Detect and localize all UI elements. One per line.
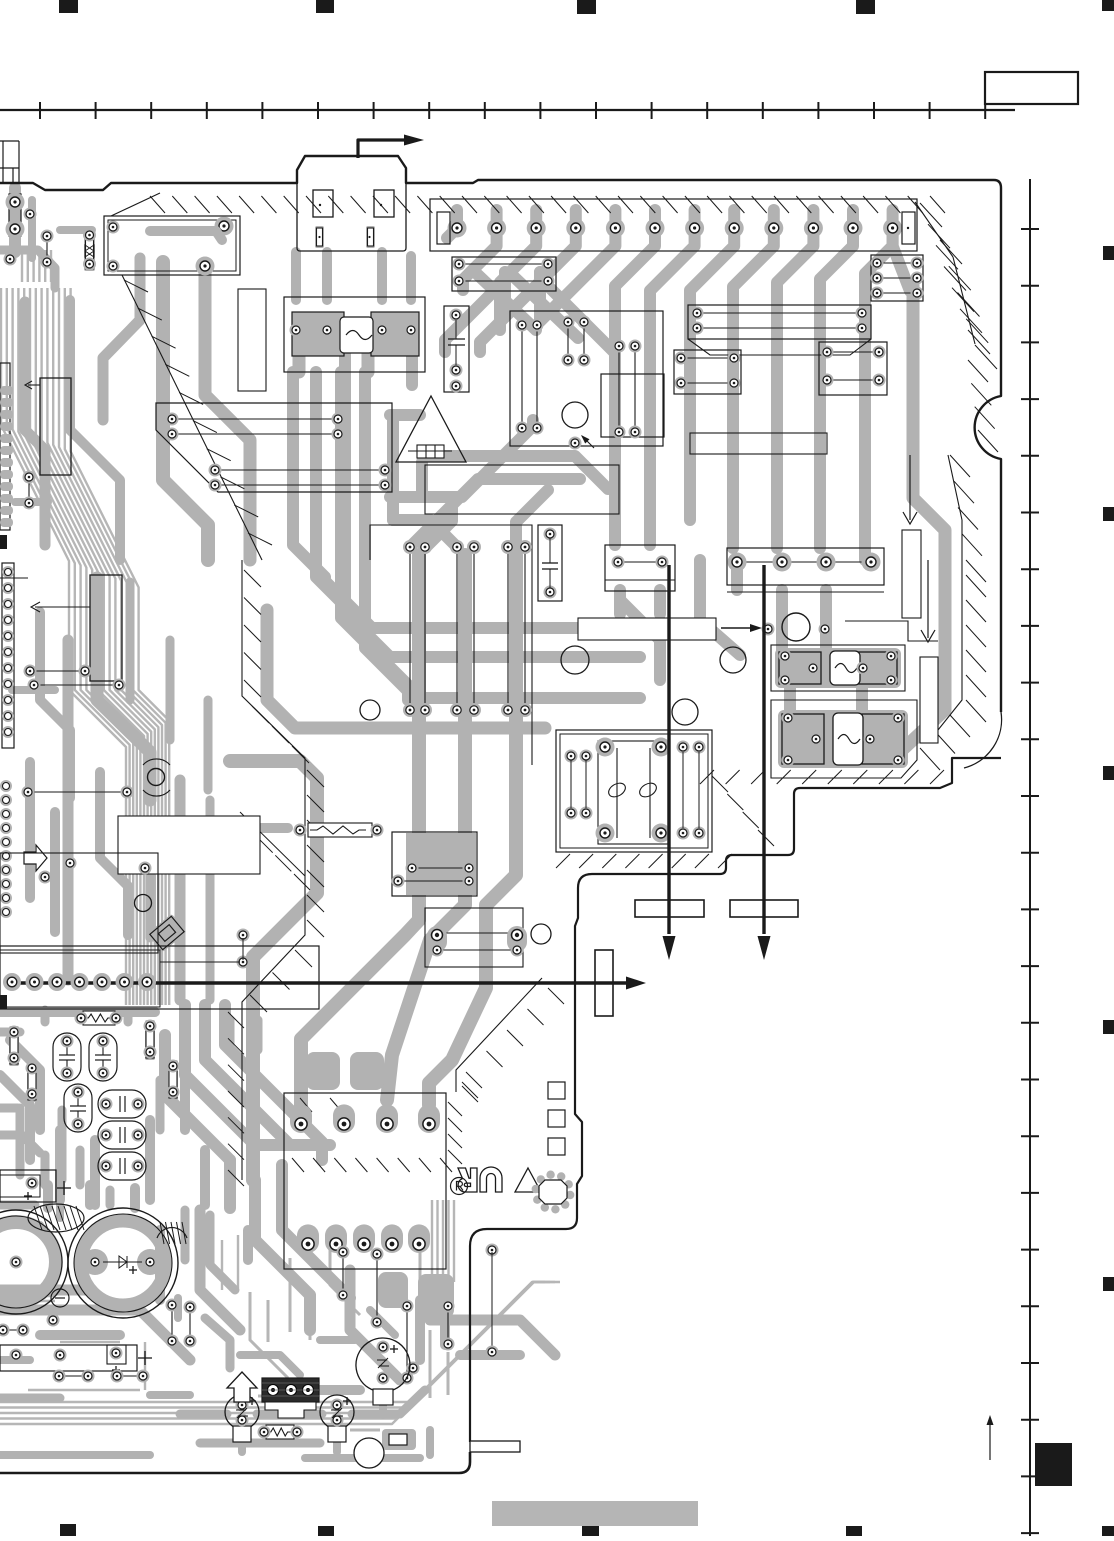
capacitor C5 [98,1121,146,1149]
signal label 1 [635,900,704,917]
IC Q1 tall rect [40,378,71,475]
crop mark top 1 [59,0,78,13]
right ruler scale [1029,179,1031,1536]
circle open E [360,700,380,720]
label box L3 [578,618,716,640]
capacitor C3 [64,1084,92,1132]
relay RY2 [771,645,905,691]
pads L [407,1362,420,1375]
hatch band diagonal left [124,280,148,292]
board edge tab [470,1441,520,1452]
board edge notch arc lower [964,712,1002,768]
circle open D [561,646,589,674]
wire bundle: left column thin traces [21,250,23,282]
capacitor C6 [98,1152,146,1180]
board outline bottom right steps [470,758,1001,1442]
keepout rect mid [238,289,266,391]
pads row LP4 [28,791,127,793]
hatch left band line [122,275,262,560]
left margin marker 2 [0,995,7,1009]
flow arrow R1 [909,455,911,520]
label box L2 [690,433,827,454]
cap hatched 1 [28,1204,84,1232]
signal label 3 [595,950,613,1016]
wire group: left column wide traces [9,188,21,252]
pads P1 [9,194,21,236]
jumper block W1 [425,908,523,967]
wire group: diagonal web near L1 [445,272,505,352]
resistor R3 [308,823,372,837]
wire stubs: top pad row [451,210,463,228]
component RB2 block [819,342,887,395]
top ruler scale [0,109,1015,111]
step outline mid [845,621,938,641]
connector CN pin 2 [366,226,375,248]
triangle warning 2 [515,1168,541,1192]
keepout rect R1 [902,530,921,618]
relay RY3 [771,700,917,778]
right margin marker 5 [1103,1277,1114,1291]
capacitor C1 [53,1033,81,1081]
jumper block W0 [406,833,476,895]
board outline bottom [0,1452,470,1473]
arrow to next sheet top [358,140,404,158]
component R block [452,257,556,291]
hatch top border [150,196,165,213]
hatch connector block [292,1158,304,1172]
transistor Q3 [225,1395,259,1429]
crop mark bottom 2 [318,1526,334,1536]
component RM block [688,305,871,339]
component H4 block [156,403,392,492]
connector CN6 [0,946,319,1009]
small part Y1 [382,1429,416,1450]
part X2 row2 [59,1375,88,1377]
pin lines center [370,525,532,765]
signal arrow line 2 [762,565,765,934]
capacitor C2 [89,1033,117,1081]
crop mark bottom 5 [1102,1526,1114,1536]
right margin marker 2 [1103,507,1114,521]
pads I [171,1305,173,1341]
resistor R2 [266,1425,294,1439]
via circle F1 [135,895,152,912]
via hole A [531,924,551,944]
hatch right border line [915,202,953,257]
signal arrow line 3 [8,981,626,984]
capacitor C4 [98,1090,146,1118]
signal label 2 [730,900,798,917]
connector CN4 [2,563,14,748]
UR logo [458,1167,502,1192]
flow arrow R2 [927,560,929,638]
component U1 group [510,311,663,446]
arrow mid [721,627,752,629]
circle Y2 [354,1438,384,1468]
capacitor C8 [538,525,562,601]
pads pair LP3 [28,477,30,503]
dark part SW1 [262,1378,319,1402]
hatch channel right bank [456,978,542,1092]
vertical part V2 [27,1062,37,1102]
crop mark top 3 [577,0,596,14]
component B1 box [605,545,675,591]
hatch channel left bank [242,560,305,1180]
connector CN3 [0,363,10,530]
pads K [342,1252,344,1295]
component frame F2 [0,853,158,953]
connector CN top outline [297,183,406,251]
component RB1 block [674,350,741,394]
fiducial squares [548,1082,565,1099]
diamond jumper [147,914,187,953]
big cap E2 [68,1208,178,1318]
component K1 trace [150,231,222,240]
dual relay RY4 [556,730,712,852]
component K1 frame [104,216,240,275]
wire: right margin bus [872,285,945,752]
diode D1 strip [84,229,95,271]
left margin marker 1 [0,535,7,549]
wire group: left-center verticals [293,340,306,372]
pads M [52,1319,54,1321]
vertical part V4 [168,1060,178,1100]
pads J [406,1306,408,1378]
transistor Q5 [356,1338,410,1392]
relay RY1 [284,297,425,372]
hatch under dual relay [556,854,570,868]
pad P3 [4,253,17,266]
arrow into pads left [29,606,31,608]
connector CN2 [284,1093,446,1269]
title box top right [985,72,1078,104]
right margin marker 1 [1103,246,1114,260]
hatch under relays [700,770,714,784]
crop mark top 4 [856,0,875,14]
connector CN box 2 [374,190,394,217]
wire bus: top pad row ladder [463,228,497,290]
minus circle [51,1289,69,1307]
component RT block [871,255,923,301]
crop mark top 5 [1102,0,1114,11]
crop mark top 2 [316,0,334,13]
hollow up arrow [227,1372,257,1402]
wire group: bottom-left cluster [0,1007,155,1017]
vertical part V1 [9,1026,19,1066]
pads row LP2 [34,684,119,686]
up arrow bottom right [989,1423,991,1460]
dotted pad ring [566,1191,574,1199]
crop mark bottom 4 [846,1526,862,1536]
part X1 [0,1170,56,1202]
circle open B [672,699,698,725]
keepout rect R2 [920,657,938,743]
board edge top left pins [0,167,19,169]
circle open C [720,647,746,673]
label box L1 [425,465,619,514]
pads H [3,1329,23,1331]
connector CN box 1 [313,190,333,217]
black square marker [1035,1443,1072,1486]
pads P2 [46,236,48,262]
wire group: channel traces to CN2 [230,761,317,1180]
crop mark bottom 3 [582,1526,599,1536]
gray label box bottom [492,1501,698,1526]
right margin marker 4 [1103,1020,1114,1034]
IC Q2 tall rect [90,575,122,681]
triangle warning 1 [396,396,466,462]
right margin marker 3 [1103,766,1114,780]
wire stubs: relay RY1 [291,252,301,300]
white arrow right [24,845,47,871]
wire bundle: bottom thin traces [0,1282,540,1402]
connector CN5 [0,780,12,792]
resistor R1 [83,1011,115,1025]
signal arrow line 1 [667,565,670,934]
hatch right border [920,203,942,227]
board outline top/right [0,156,1001,712]
via eye E1 [148,769,165,786]
vertical part V3 [145,1020,155,1060]
component K1 pads [107,221,120,234]
transistor Q4 [320,1395,354,1429]
component B2 box [727,548,884,585]
copper trace layer [0,188,945,1458]
capacitor C7 [444,306,469,392]
pads G [237,956,250,969]
connector CN pin 1 [315,226,324,248]
pads row LP1 [30,670,85,672]
wire group: nested L-bend buses [293,372,640,628]
cap hatched 2 [157,1222,187,1244]
label box L4 [118,816,260,874]
crop mark bottom 1 [60,1524,76,1536]
part X2 row [0,1345,137,1371]
top pad row J1 [430,199,917,251]
big cap E1 [0,1210,68,1314]
